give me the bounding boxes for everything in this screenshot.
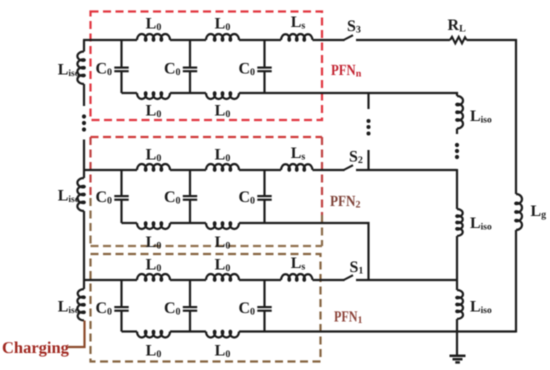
capacitor C0 #2 (PFNn) branch	[189, 40, 191, 68]
switch S1	[344, 275, 353, 280]
right column continuation dots	[455, 143, 459, 147]
wire: PFN2 top rail segment 2	[170, 169, 206, 171]
inductor L0 (PFN2 bottom left)	[137, 222, 170, 229]
wire: S1 node down to Liso3 right	[456, 280, 458, 290]
wire: left rail top corner to Liso1	[83, 40, 85, 52]
inductor L_iso (left, PFNn)	[77, 52, 84, 85]
wire: S2 output to right column	[356, 169, 457, 171]
wire: PFN1 top rail segment 1	[83, 279, 137, 281]
wire: stub below PFNn bottom rail	[367, 93, 369, 109]
wire: left rail to PFN1 input node	[83, 211, 85, 289]
wire: PFN2 output to switch	[313, 169, 345, 171]
capacitor C0 #3 (PFNn) branch	[263, 40, 265, 68]
capacitor C0 #1 (PFNn) branch	[120, 40, 122, 68]
wire: PFNn output to switch	[313, 39, 345, 41]
inductor L_iso (right, middle)	[456, 209, 462, 236]
wire: PFNn top rail segment 3	[239, 39, 281, 41]
wire: PFNn top rail segment 2	[170, 39, 206, 41]
wire: PFN1 bottom ground rail	[239, 330, 516, 332]
inductor L0 (PFN2 top left)	[137, 164, 170, 171]
wire: PFN1 output to switch	[313, 279, 345, 281]
wire: charging feed (brown)	[68, 321, 85, 348]
wire: PFN1 top rail segment 3	[239, 279, 281, 281]
inductor L0 (PFN1 top right)	[206, 274, 239, 281]
inductor L_iso (right, bottom)	[456, 290, 463, 319]
wire: Liso3 to ground rail	[456, 319, 458, 332]
wire: left rail to PFN2 input node	[83, 140, 85, 179]
capacitor C0 #2 (PFN1) branch	[189, 280, 191, 307]
inductor L0 (PFN2 bottom right)	[206, 222, 239, 229]
inductor Ls (PFNn)	[281, 34, 313, 41]
svg-text:Charging: Charging	[2, 338, 70, 357]
wire: far right rail below Lg	[515, 230, 517, 333]
capacitor C0 #3 (PFN2) branch	[263, 170, 265, 196]
wire: S1 output to right column	[356, 279, 457, 281]
inductor L_iso (left, PFN1)	[77, 289, 84, 321]
wire: RL to far right rail corner	[467, 40, 516, 194]
wire: PFN2 top rail segment 1	[83, 169, 137, 171]
inductor L_iso (right, top)	[456, 96, 463, 129]
wire: PFN1 bottom rail segment 1	[122, 330, 138, 332]
switch S3	[344, 35, 353, 40]
inductor L0 (PFNn bottom right)	[206, 92, 239, 99]
wire: tail below right Liso1	[456, 129, 458, 135]
wire: S3 to RL	[356, 39, 450, 41]
capacitor C0 #1 (PFN1) branch	[120, 280, 122, 307]
wire: PFN1 bottom rail segment 2	[170, 330, 206, 332]
wire: S2 node down to Liso2 right	[456, 169, 458, 209]
wire: PFN2 bottom rail to elbow	[239, 223, 369, 280]
inductor L0 (PFN1 top left)	[137, 274, 170, 281]
capacitor C0 #3 (PFN1) branch	[263, 280, 265, 307]
resistor RL	[450, 37, 467, 43]
inductor L0 (PFNn top right)	[206, 34, 239, 41]
wire: PFN1 top rail segment 2	[170, 279, 206, 281]
inductor Ls (PFN2)	[281, 164, 313, 171]
wire: stub above S2 node	[367, 150, 369, 170]
capacitor C0 #1 (PFN2) branch	[120, 170, 122, 196]
continuation dots (stage chain)	[367, 119, 371, 123]
inductor L_iso (left, PFN2)	[77, 178, 84, 211]
PFN_2 dashed boundary box	[91, 137, 323, 246]
inductor L0 (PFN1 bottom right)	[206, 331, 239, 338]
inductor L0 (PFN2 top right)	[206, 164, 239, 171]
wire: PFNn bottom rail segment 2	[170, 92, 206, 94]
switch S2	[344, 165, 353, 170]
wire: left rail below Liso1	[83, 84, 85, 106]
PFN_1 dashed boundary box	[91, 254, 321, 362]
PFN_n dashed boundary box	[91, 12, 323, 121]
inductor Lg	[515, 194, 522, 230]
ground symbol	[456, 332, 458, 356]
wire: PFNn top rail segment 1	[83, 39, 137, 41]
wire: Liso2 down to S1 node	[456, 236, 458, 280]
inductor L0 (PFNn bottom left)	[137, 92, 170, 99]
wire: PFNn bottom rail segment 1	[122, 92, 138, 94]
wire: PFNn bottom rail to right column	[239, 92, 458, 94]
capacitor C0 #2 (PFN2) branch	[189, 170, 191, 196]
inductor Ls (PFN1)	[281, 274, 313, 281]
wire: PFNn bottom corner into Liso1 right	[456, 92, 458, 96]
left rail continuation dots	[82, 114, 86, 118]
inductor L0 (PFN1 bottom left)	[137, 331, 170, 338]
inductor L0 (PFNn top left)	[137, 34, 170, 41]
wire: PFN2 top rail segment 3	[239, 169, 281, 171]
wire: PFN2 bottom rail segment 1	[122, 222, 138, 224]
wire: PFN2 bottom rail segment 2	[170, 222, 206, 224]
